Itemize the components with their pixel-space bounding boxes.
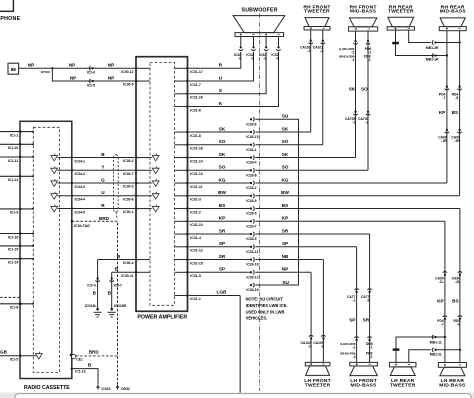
svg-text:SR: SR: [219, 254, 226, 259]
svg-text:IC31-6: IC31-6: [190, 108, 201, 112]
svg-text:IC31-14: IC31-14: [190, 159, 203, 163]
connector IC33-7: [246, 219, 256, 228]
wire B down to ground ICG16L: [97, 260, 99, 310]
wire SO from connector IC33-1: [255, 139, 322, 145]
svg-text:USED ONLY IN LWB: USED ONLY IN LWB: [246, 309, 285, 314]
LH front mid-bass: [350, 362, 378, 388]
connector CA77 (wire SP): [347, 289, 359, 303]
wire B to IC30-11: [112, 267, 136, 273]
connector IC32-2: [246, 46, 255, 61]
pin IC31-1 (power amplifier): [174, 294, 200, 301]
wire S from IC31 to subwoofer: [188, 52, 267, 94]
connector IC32-1: [234, 46, 243, 61]
connector PD4 (RH): [439, 86, 449, 101]
svg-text:IC33-13: IC33-13: [246, 275, 258, 279]
connector CA102: [301, 335, 314, 348]
svg-text:IC31-17: IC31-17: [190, 70, 203, 74]
svg-text:IC33-8: IC33-8: [246, 173, 256, 177]
svg-text:-1: -1: [308, 345, 311, 349]
wire BS from connector IC33-5: [255, 203, 460, 209]
svg-text:BT516: BT516: [41, 70, 50, 74]
wire SR down to LH front mid-bass: [363, 234, 370, 362]
ground ICG18R: [108, 304, 127, 317]
wire BW up to RH rear mid-bass: [452, 31, 460, 196]
connector IC32-3: [259, 46, 268, 61]
connector PD6/DD6 (RH, wire SK): [339, 40, 358, 62]
pin IC30-4 (power amplifier): [123, 258, 150, 265]
wire LGB from IC31-1: [188, 290, 241, 296]
svg-text:IC31-16: IC31-16: [190, 96, 203, 100]
svg-text:CE1: CE1: [76, 357, 83, 361]
connector MB1-1R: [426, 53, 439, 61]
svg-text:MB1-1L: MB1-1L: [430, 340, 442, 344]
svg-text:NP: NP: [69, 63, 76, 68]
svg-text:-1: -1: [238, 57, 241, 61]
connector IC33-8: [246, 168, 256, 177]
svg-text:IC33-5: IC33-5: [246, 212, 256, 216]
svg-text:RADIO CASSETTE: RADIO CASSETTE: [24, 385, 70, 391]
svg-text:MID-BASS: MID-BASS: [439, 383, 466, 389]
connector MB1-1L: [430, 335, 442, 345]
svg-text:IC1-13: IC1-13: [75, 370, 85, 374]
connector CA705: [345, 111, 358, 125]
svg-text:-2: -2: [366, 299, 369, 303]
connector IC33-2: [246, 181, 256, 190]
svg-text:IC33-2: IC33-2: [246, 186, 256, 190]
svg-text:SO: SO: [282, 165, 289, 170]
svg-text:-2: -2: [365, 120, 368, 124]
wire SR from connector IC33-3: [255, 228, 369, 234]
screened-cable symbol (amplifier input): [150, 154, 159, 161]
svg-text:-1: -1: [352, 120, 355, 124]
svg-text:TELEPHONE: TELEPHONE: [0, 16, 21, 22]
svg-text:NP: NP: [108, 75, 115, 80]
pin IC31-8 (power amplifier): [174, 131, 200, 138]
svg-text:IC31-15: IC31-15: [190, 261, 203, 265]
svg-text:BRD: BRD: [99, 216, 110, 221]
svg-text:-8: -8: [455, 96, 458, 100]
connector IC32-4: [271, 46, 280, 61]
wire to pin IC1-14 (radio cassette): [0, 258, 34, 265]
connector PD6/DD6 (RH, wire SO): [364, 40, 371, 62]
screened-cable symbol (GB input): [35, 354, 42, 359]
wire R from IC31 to subwoofer: [188, 52, 241, 69]
pin IC31-16 (power amplifier): [174, 93, 202, 100]
connector CA90-2L: [452, 272, 462, 284]
svg-text:-2: -2: [353, 355, 356, 359]
screened-cable symbol (amplifier input): [150, 192, 159, 199]
RH front mid-bass: [349, 4, 378, 31]
wire SP down to LH front mid-bass: [349, 247, 356, 363]
svg-text:IC33-16: IC33-16: [246, 288, 258, 292]
wire KG up to RH rear mid-bass: [439, 31, 447, 183]
RH front tweeter: [303, 4, 330, 30]
svg-text:BS: BS: [452, 110, 459, 115]
bottom frame bar: [0, 392, 474, 398]
svg-text:IC33-15: IC33-15: [246, 135, 258, 139]
wire NB down to LH front tweeter (CA100): [322, 260, 324, 363]
wire to pin IC1-1 (radio cassette): [0, 130, 34, 137]
centerline (dash-dot) through subwoofer: [259, 14, 261, 392]
connector RD4 (LH): [453, 316, 462, 327]
wire SP from amplifier to connector IC33-11: [188, 241, 250, 247]
screened-cable symbol (amplifier input): [150, 166, 159, 173]
wire B down to ground ICG18R: [111, 272, 113, 309]
connector PD4 (LH): [437, 316, 447, 327]
note about SU circuit: [246, 297, 288, 321]
telephone unit box (cut off): [0, 0, 21, 22]
connector IC33-18: [246, 257, 258, 266]
wire to pin IC1-9 (radio cassette): [0, 208, 34, 215]
svg-text:IC30-11: IC30-11: [121, 274, 133, 278]
wire KP from amplifier to connector IC33-7: [188, 216, 250, 222]
wire KP down to LH rear mid-bass: [437, 221, 445, 362]
screened-cable symbol (radio output U): [51, 192, 58, 199]
svg-text:IC2-4: IC2-4: [87, 284, 95, 288]
svg-text:NP: NP: [70, 75, 77, 80]
wire from RH rear tweeter + terminal: [396, 30, 445, 56]
wire SO from amplifier to connector IC33-8: [188, 165, 250, 171]
svg-text:KP: KP: [282, 216, 289, 221]
svg-text:SK: SK: [219, 126, 226, 131]
svg-text:-7: -7: [442, 96, 445, 100]
wire SP from amplifier to connector IC33-13: [188, 267, 250, 273]
svg-text:IC34-1: IC34-1: [75, 159, 86, 163]
svg-text:KP: KP: [437, 298, 444, 303]
svg-text:SO: SO: [282, 139, 289, 144]
svg-text:S: S: [219, 88, 222, 93]
screened-cable symbol (radio output B): [51, 154, 58, 161]
wire SK up to RH front mid-bass: [349, 31, 356, 157]
wire G from IC34-3 to amplifier: [58, 177, 136, 188]
screened-cable symbol (amplifier input): [150, 205, 159, 212]
svg-text:-2: -2: [369, 355, 372, 359]
svg-text:MB1-2R: MB1-2R: [426, 46, 439, 50]
svg-text:TWEETER: TWEETER: [305, 383, 331, 389]
svg-text:TWEETER: TWEETER: [390, 383, 416, 389]
svg-text:IC30-12: IC30-12: [121, 70, 134, 74]
svg-text:MB1-1R: MB1-1R: [426, 58, 439, 62]
svg-text:BW: BW: [218, 190, 226, 195]
svg-text:IC31-18: IC31-18: [190, 147, 203, 151]
svg-text:IC1-11: IC1-11: [8, 159, 18, 163]
svg-text:IC30-1: IC30-1: [123, 210, 134, 214]
svg-text:SP: SP: [349, 318, 355, 323]
pin IC30-3 (power amplifier): [123, 182, 150, 189]
wire NP down to LH front tweeter (CA102): [310, 272, 312, 362]
pin IC31-5 (power amplifier): [174, 271, 200, 278]
svg-text:ICG18R: ICG18R: [114, 304, 127, 308]
screened-cable symbol (radio output Y): [51, 166, 58, 173]
connector IC2-5: [87, 79, 95, 87]
svg-text:IC31-5: IC31-5: [190, 274, 201, 278]
svg-text:LGB: LGB: [217, 290, 228, 295]
wire GB to pin IC1-5 (radio cassette): [0, 350, 36, 362]
svg-text:SK: SK: [219, 152, 226, 157]
wire U from IC34-4 to amplifier: [58, 190, 136, 201]
wire B to IC30-4: [98, 254, 136, 260]
svg-text:SR: SR: [282, 228, 289, 233]
svg-text:IC33-11: IC33-11: [246, 250, 258, 254]
connector MB1-2L: [430, 348, 442, 357]
connector CA100: [313, 335, 325, 348]
connector IC33-11: [246, 245, 258, 254]
svg-text:IC1-5: IC1-5: [10, 358, 19, 362]
screened-cable symbol (radio output G): [51, 179, 58, 186]
pin IC30-12 (power amplifier): [121, 67, 150, 74]
connector CA103: [300, 40, 313, 54]
wire SO from connector IC33-8: [255, 165, 368, 171]
svg-text:-1: -1: [352, 58, 355, 62]
wire B from IC34-1 to amplifier: [58, 152, 136, 163]
svg-text:NOTE: SU CIRCUIT: NOTE: SU CIRCUIT: [246, 297, 284, 302]
pin IC30-1 (power amplifier): [123, 207, 150, 214]
svg-text:-3: -3: [263, 57, 266, 61]
svg-text:SK: SK: [282, 126, 289, 131]
wire to pin IC1-12 (radio cassette): [0, 175, 34, 182]
dashed screen wire into radio cassette: [0, 296, 20, 298]
svg-text:IC1-8: IC1-8: [10, 306, 19, 310]
connector IC33-6: [246, 117, 256, 126]
pin IC30-11 (power amplifier): [121, 271, 150, 278]
junction on KP wire: [436, 336, 446, 338]
screened-cable symbol (radio output R): [51, 205, 58, 212]
svg-text:IC31-12: IC31-12: [190, 249, 203, 253]
harness arrow OD32: [116, 385, 130, 391]
svg-text:-8: -8: [457, 323, 460, 327]
svg-text:NP: NP: [282, 267, 289, 272]
svg-text:IC34-3: IC34-3: [75, 185, 86, 189]
connector MB1-2R: [426, 40, 439, 50]
ground ICG16L: [85, 304, 102, 317]
pin IC30-5 (power amplifier): [123, 80, 150, 87]
wire KG from connector IC33-2: [255, 177, 447, 183]
svg-text:MID-BASS: MID-BASS: [351, 383, 378, 389]
svg-text:IC34-2: IC34-2: [75, 172, 86, 176]
pin IC31-4 (power amplifier): [174, 233, 200, 240]
pin IC31-6 (power amplifier): [174, 105, 200, 112]
pin IC31-2 (power amplifier): [174, 207, 200, 214]
wire SK from connector IC33-4: [255, 152, 355, 158]
svg-text:SR: SR: [363, 318, 370, 323]
pin IC31-18 (power amplifier): [174, 144, 202, 151]
svg-text:IC30-2: IC30-2: [123, 159, 134, 163]
svg-text:IC33-7: IC33-7: [246, 224, 256, 228]
svg-text:SP: SP: [219, 241, 225, 246]
wire to pin IC1-10 (radio cassette): [0, 143, 34, 150]
svg-text:-4: -4: [276, 57, 279, 61]
wire BW from amplifier to connector IC33-9: [188, 190, 250, 196]
wire SK up to RH front tweeter (CA103): [310, 30, 312, 132]
svg-text:IC1-16: IC1-16: [8, 235, 19, 239]
svg-text:IC31-7: IC31-7: [190, 83, 201, 87]
LH rear tweeter: [389, 362, 416, 388]
svg-text:IC33-6: IC33-6: [246, 122, 256, 126]
pin IC31-12 (power amplifier): [174, 246, 202, 253]
connector DD6/PD6 (LH, wire SR): [366, 337, 373, 359]
svg-text:SR: SR: [219, 228, 226, 233]
svg-text:-7: -7: [441, 323, 444, 327]
splice bar (RH rear tweeter): [392, 42, 399, 45]
svg-text:SK: SK: [349, 86, 356, 91]
connector RD4 (RH): [452, 86, 462, 101]
svg-text:MID-BASS: MID-BASS: [350, 9, 377, 15]
pin IC1-13 (radio cassette): [71, 367, 86, 373]
wire SR from amplifier to connector IC33-3: [188, 228, 250, 234]
screen loop around B,Y,G,U,R wires (dashed): [114, 155, 119, 220]
connector IC33-16: [246, 283, 258, 292]
junction on BW wire: [436, 41, 461, 43]
svg-text:NP: NP: [108, 63, 115, 68]
svg-text:BS: BS: [282, 203, 289, 208]
wire SK from connector IC33-15: [255, 126, 310, 132]
pin IC31-13 (power amplifier): [174, 169, 202, 176]
wire NP from box 88: [19, 63, 136, 75]
svg-text:IDENTIFIES LWB ICE.: IDENTIFIES LWB ICE.: [246, 303, 288, 308]
connector CA101: [313, 40, 325, 54]
LH rear mid-bass: [438, 363, 466, 389]
wire SU loop (LWB identifier): [255, 114, 298, 285]
wire NB from connector IC33-18: [255, 254, 323, 260]
svg-text:-1: -1: [368, 58, 371, 62]
svg-text:IC33-1: IC33-1: [246, 148, 256, 152]
svg-text:BRD: BRD: [89, 350, 100, 355]
connector IC33-13: [246, 270, 258, 279]
pin IC30-2 (power amplifier): [123, 156, 150, 163]
svg-text:IC1-9: IC1-9: [10, 211, 19, 215]
wire KG from amplifier to connector IC33-2: [188, 177, 250, 183]
pin IC30-7 (power amplifier): [123, 169, 150, 176]
svg-text:IC024: IC024: [102, 387, 111, 391]
svg-text:88: 88: [11, 67, 17, 72]
svg-text:KG: KG: [218, 177, 225, 182]
pin IC30-6 (power amplifier): [123, 195, 150, 202]
svg-text:-1: -1: [352, 299, 355, 303]
wire K from IC31 to subwoofer: [188, 52, 279, 107]
wire BW from connector IC33-9: [255, 190, 459, 196]
svg-text:POWER AMPLIFIER: POWER AMPLIFIER: [137, 315, 187, 321]
svg-text:IC30-3: IC30-3: [123, 185, 134, 189]
pin IC31-14 (power amplifier): [174, 156, 202, 163]
LH front tweeter: [304, 362, 331, 388]
svg-text:SP: SP: [282, 241, 288, 246]
svg-text:IC31-13: IC31-13: [190, 172, 203, 176]
connector IC2-7: [108, 277, 122, 295]
pin IC31-7 (power amplifier): [174, 80, 200, 87]
wire to pin IC1-15 (radio cassette): [0, 245, 34, 252]
svg-text:SO: SO: [219, 139, 226, 144]
wire SR from amplifier to connector IC33-18: [188, 254, 250, 260]
svg-text:IC1-14: IC1-14: [8, 261, 19, 265]
wire BRD (screen drain, dashed): [72, 216, 118, 385]
wire to pin IC1-11 (radio cassette): [0, 156, 34, 163]
svg-text:IC1-1: IC1-1: [10, 133, 19, 137]
wire from LH rear tweeter - terminal: [409, 350, 431, 363]
svg-text:BW: BW: [281, 190, 289, 195]
svg-text:-1: -1: [370, 346, 373, 350]
svg-text:IC33-3: IC33-3: [246, 237, 256, 241]
connector IC33-9: [246, 194, 256, 203]
svg-text:SP: SP: [219, 267, 225, 272]
svg-text:ICG16L: ICG16L: [85, 304, 97, 308]
connector IC2-4: [87, 277, 99, 295]
RH rear mid-bass: [439, 4, 466, 30]
connector IC33-5: [246, 206, 256, 215]
svg-text:IC31-8: IC31-8: [190, 134, 201, 138]
wire SK from amplifier to connector IC33-15: [188, 126, 250, 132]
svg-text:SU: SU: [282, 280, 289, 285]
svg-text:IC30-4: IC30-4: [123, 261, 134, 265]
svg-text:-2L: -2L: [455, 280, 460, 284]
svg-text:IC34-5: IC34-5: [75, 210, 86, 214]
harness arrow IC024: [96, 385, 111, 391]
screened-cable symbol (amplifier input): [150, 179, 159, 186]
wire NP branch to IC30-5: [52, 68, 136, 81]
subwoofer: [233, 8, 285, 37]
svg-text:VEHICLES.: VEHICLES.: [246, 316, 268, 321]
wire LGB down to harness: [239, 296, 241, 393]
svg-text:-2: -2: [321, 345, 324, 349]
svg-text:-2: -2: [320, 49, 323, 53]
power amplifier box: [136, 57, 188, 321]
wire B from IC1-13: [72, 363, 98, 385]
connector CA90-1L: [435, 272, 447, 284]
svg-text:SO: SO: [361, 86, 368, 91]
svg-text:NB: NB: [282, 254, 289, 259]
subwoofer wires to terminals: [241, 36, 279, 46]
junction on KG wire: [436, 54, 448, 56]
svg-text:MB1-2L: MB1-2L: [430, 352, 442, 356]
wire BS down to LH rear mid-bass: [452, 209, 460, 363]
svg-text:-1L: -1L: [439, 280, 444, 284]
svg-text:BS: BS: [219, 203, 226, 208]
pin IC31-15 (power amplifier): [174, 258, 202, 265]
splice bar (LH rear tweeter): [393, 348, 400, 350]
svg-text:IC31-1: IC31-1: [190, 297, 201, 301]
svg-text:-1: -1: [352, 346, 355, 350]
svg-text:TWEETER: TWEETER: [388, 9, 414, 15]
connector IC33-4: [246, 155, 256, 164]
svg-text:MID-BASS: MID-BASS: [440, 9, 467, 15]
svg-text:IC33-9: IC33-9: [246, 199, 256, 203]
connector IC33-3: [246, 232, 256, 241]
wire from RH rear tweeter - terminal: [409, 30, 431, 43]
pin IC31-10 (power amplifier): [174, 220, 202, 227]
connector DD6/PD6 (LH, wire SP): [340, 337, 358, 359]
svg-text:KP: KP: [439, 110, 446, 115]
svg-text:TWEETER: TWEETER: [304, 9, 330, 15]
svg-text:IC1-12: IC1-12: [8, 178, 19, 182]
reference box 88: [8, 63, 19, 74]
svg-text:IC34-4: IC34-4: [75, 198, 86, 202]
svg-text:SU: SU: [282, 114, 289, 119]
svg-text:KP: KP: [219, 216, 226, 221]
svg-text:IC30-6: IC30-6: [123, 197, 134, 201]
svg-text:G: G: [101, 177, 105, 182]
pin IC31-3 (power amplifier): [174, 195, 200, 202]
svg-text:IC31-10: IC31-10: [190, 223, 203, 227]
RH rear tweeter: [387, 4, 414, 30]
svg-text:GB: GB: [0, 350, 8, 355]
svg-text:IC31-11: IC31-11: [190, 185, 202, 189]
svg-text:IC30-7: IC30-7: [123, 172, 134, 176]
pin IC34-TAG (radio cassette): [71, 220, 91, 228]
svg-text:NP: NP: [28, 63, 35, 68]
wire BRD from CE1 (dashed): [76, 350, 118, 356]
connector CA703: [358, 111, 370, 125]
svg-text:-2: -2: [251, 57, 254, 61]
wire to pin IC1-8 (radio cassette): [0, 302, 34, 309]
